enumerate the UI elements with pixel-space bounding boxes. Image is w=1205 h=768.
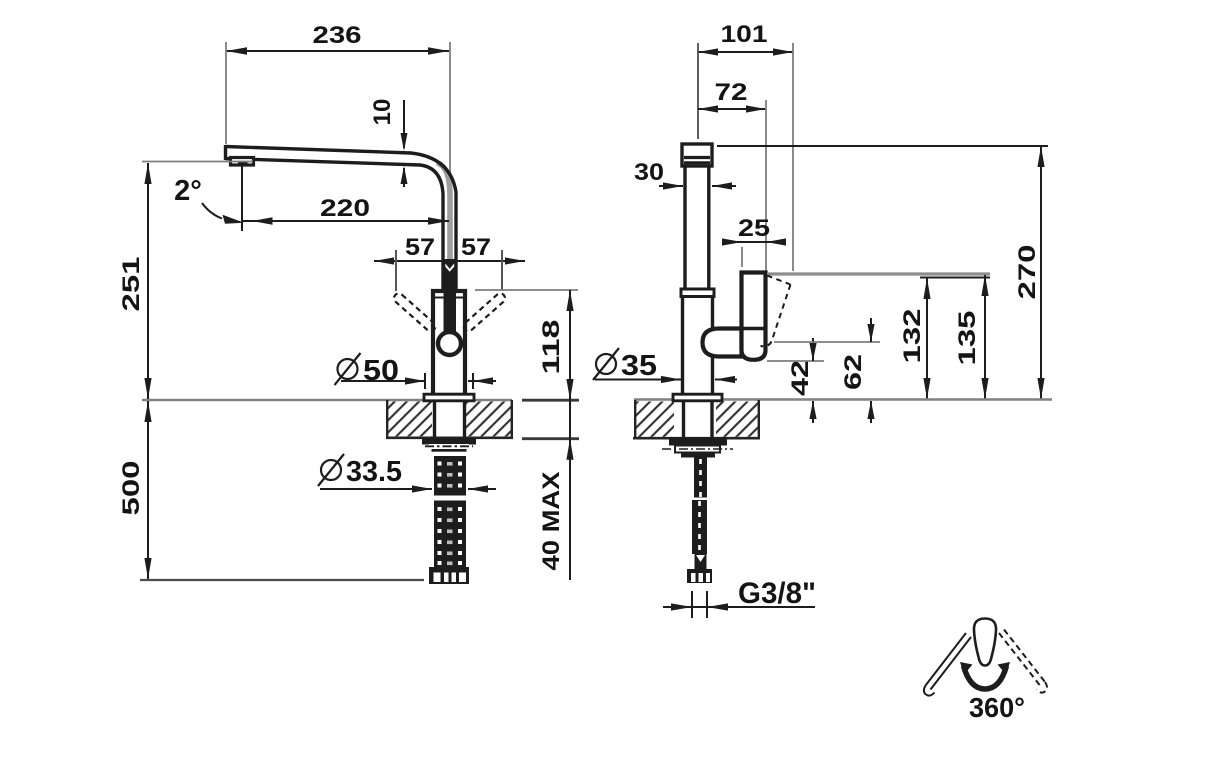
svg-text:251: 251 bbox=[118, 257, 145, 312]
dimension 118 bbox=[475, 290, 578, 400]
svg-text:40 MAX: 40 MAX bbox=[538, 472, 565, 571]
svg-text:57: 57 bbox=[461, 234, 491, 261]
svg-text:220: 220 bbox=[320, 195, 370, 222]
threaded shank bbox=[433, 456, 467, 568]
dimension 251 bbox=[118, 162, 253, 400]
countertop slab (right view) bbox=[633, 400, 1052, 439]
svg-text:132: 132 bbox=[899, 309, 926, 364]
svg-text:360°: 360° bbox=[969, 692, 1025, 723]
svg-text:10: 10 bbox=[369, 99, 396, 126]
svg-text:118: 118 bbox=[538, 320, 565, 375]
aerator outlet bbox=[231, 158, 254, 166]
dimension 62 bbox=[774, 318, 880, 423]
svg-text:500: 500 bbox=[118, 461, 145, 516]
threaded tail pipe bbox=[694, 458, 707, 498]
svg-text:57: 57 bbox=[405, 234, 435, 261]
dimension 57 57 (lever swing) bbox=[374, 234, 525, 291]
dimension 500 bbox=[118, 401, 424, 580]
svg-text:270: 270 bbox=[1014, 245, 1041, 300]
dimension 101 bbox=[698, 21, 793, 271]
spout tube bbox=[226, 145, 457, 290]
dimension 220 bbox=[242, 165, 449, 231]
base flange (side view) bbox=[673, 394, 722, 401]
svg-text:30: 30 bbox=[634, 159, 664, 186]
countertop slab (left view) bbox=[142, 400, 579, 439]
dimension 40 MAX bbox=[538, 400, 574, 580]
dimension 236 bbox=[226, 22, 450, 188]
flex hose bbox=[692, 500, 707, 570]
elbow joint bbox=[703, 329, 742, 357]
base plate bbox=[424, 394, 474, 401]
body (left view) bbox=[433, 291, 465, 395]
locknut below counter bbox=[422, 438, 476, 456]
dimension diameter 33.5 bbox=[318, 454, 496, 493]
svg-text:135: 135 bbox=[954, 311, 981, 366]
dimension diameter 35 bbox=[593, 348, 737, 383]
svg-text:72: 72 bbox=[715, 79, 748, 106]
column pipe (side view) bbox=[681, 166, 714, 394]
360 degree swivel icon bbox=[924, 619, 1047, 724]
svg-text:62: 62 bbox=[840, 354, 867, 390]
ext line at lever top level bbox=[767, 272, 990, 275]
lever handle (front, vertical) bbox=[444, 259, 457, 333]
dimension 10 (spout tube height) bbox=[369, 99, 408, 187]
lever handle (side view) bbox=[742, 273, 766, 360]
svg-text:101: 101 bbox=[721, 21, 768, 48]
svg-text:42: 42 bbox=[787, 360, 814, 396]
lever swung positions (dashed) bbox=[392, 292, 507, 334]
svg-text:33.5: 33.5 bbox=[346, 456, 402, 488]
dimension G3/8" bbox=[663, 577, 816, 618]
svg-text:G3/8": G3/8" bbox=[738, 577, 816, 610]
bottom hose fitting (left view) bbox=[429, 567, 469, 584]
dimension 270 bbox=[717, 146, 1048, 399]
dimension 30 bbox=[634, 159, 736, 190]
locknut (side view) bbox=[662, 438, 733, 458]
dimension 42 bbox=[767, 338, 824, 423]
svg-text:2°: 2° bbox=[174, 175, 202, 207]
dimension diameter 50 bbox=[335, 353, 497, 389]
dimension 72 bbox=[698, 79, 766, 271]
joystick ball bbox=[438, 332, 461, 355]
dimension 2 degrees bbox=[174, 175, 244, 224]
hose end fitting (side view) bbox=[687, 569, 712, 583]
lever rotated (dashed, side view) bbox=[761, 276, 791, 347]
dimension 25 bbox=[722, 215, 786, 267]
dimension 135 bbox=[954, 275, 989, 399]
svg-text:35: 35 bbox=[621, 350, 657, 382]
dimension 132 bbox=[899, 278, 931, 399]
top cap (side view) bbox=[682, 144, 712, 166]
svg-text:236: 236 bbox=[313, 22, 362, 49]
svg-text:50: 50 bbox=[363, 355, 399, 387]
svg-text:25: 25 bbox=[738, 215, 770, 242]
